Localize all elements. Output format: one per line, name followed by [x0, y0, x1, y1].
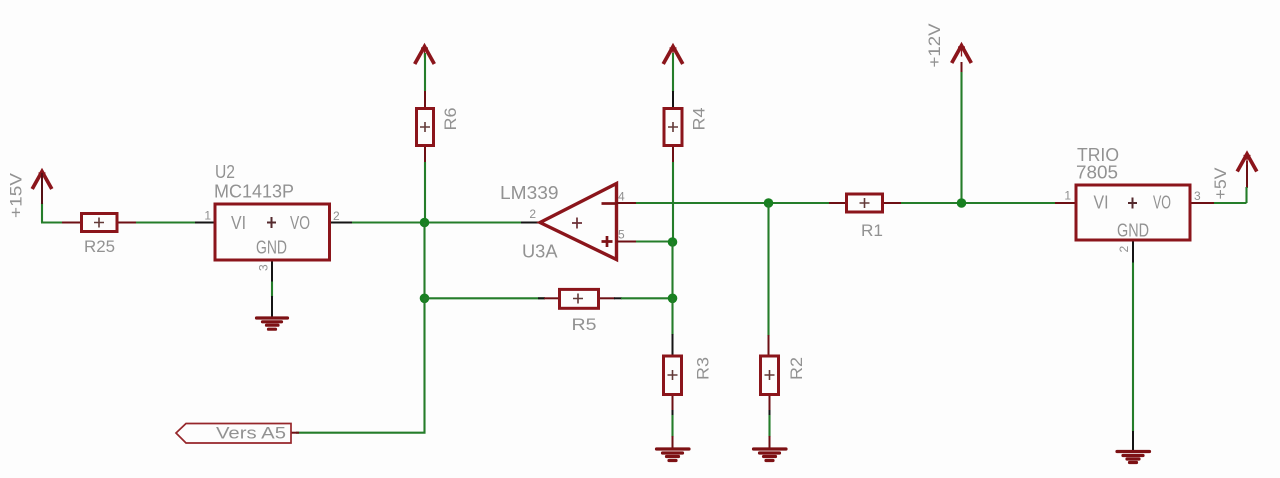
- svg-text:3: 3: [257, 264, 271, 271]
- wire R5 to node D: [621, 297, 673, 299]
- wire +12V stem: [961, 62, 963, 74]
- ground GND under R3: [657, 449, 690, 461]
- svg-text:R2: R2: [787, 357, 806, 380]
- svg-text:U3A: U3A: [522, 242, 558, 262]
- svg-text:5: 5: [618, 228, 625, 242]
- wire U2 to U3A output: [352, 221, 521, 223]
- power +5V arrow: [1237, 154, 1257, 172]
- U3A pin4 stub: [617, 202, 637, 204]
- svg-text:Vers A5: Vers A5: [216, 425, 286, 443]
- wire node B down to Vers A5: [296, 298, 425, 432]
- ground GND under R2: [754, 449, 787, 461]
- svg-text:1: 1: [204, 209, 211, 223]
- ground GND under 7805: [1117, 452, 1150, 463]
- svg-text:4: 4: [618, 190, 625, 204]
- wire arrow to R4: [672, 53, 674, 92]
- power +15V arrow: [32, 172, 52, 190]
- label stub Vers A5: [291, 432, 299, 434]
- svg-text:R6: R6: [441, 108, 460, 131]
- svg-text:1: 1: [1064, 189, 1071, 203]
- svg-text:R4: R4: [690, 108, 709, 131]
- svg-text:2: 2: [333, 209, 340, 223]
- junction node D: [668, 294, 678, 304]
- wire node E down to R2: [767, 203, 769, 336]
- junction node C: [668, 237, 678, 247]
- wire +5V stem: [1246, 161, 1248, 188]
- svg-text:+15V: +15V: [7, 172, 26, 218]
- wire 7805 output: [1214, 202, 1247, 204]
- resistor R1: [829, 194, 903, 212]
- svg-text:+12V: +12V: [925, 23, 944, 68]
- wire R1 to 7805: [901, 202, 1056, 204]
- wire +15V to R25: [41, 221, 63, 223]
- svg-text:LM339: LM339: [500, 183, 559, 203]
- power +12V arrow: [952, 46, 972, 64]
- power arrow above R4: [663, 47, 683, 65]
- junction node E: [764, 198, 774, 208]
- wire arrow to R6: [424, 53, 426, 91]
- resistor R2: [761, 335, 779, 415]
- op-amp U3A: [540, 184, 618, 260]
- wire 7805 pin2 to ground: [1132, 263, 1134, 432]
- IC U2 MC1413P: [195, 204, 352, 282]
- wire pin5 to node C: [636, 240, 673, 242]
- wire +15V stem: [41, 203, 43, 223]
- wire pin4 to R1: [636, 202, 832, 204]
- wire R6 to node A: [424, 162, 426, 223]
- junction node A: [420, 218, 430, 228]
- op-amp U3A output pin: [521, 222, 541, 224]
- wire node B to R5: [425, 297, 546, 299]
- svg-text:3: 3: [1194, 189, 1201, 203]
- svg-text:VO: VO: [1153, 193, 1171, 213]
- ground pin under 7805: [1132, 431, 1134, 451]
- junction node F: [957, 198, 967, 208]
- svg-text:R3: R3: [694, 357, 713, 380]
- U3A pin5 stub: [617, 241, 637, 243]
- svg-text:R25: R25: [84, 237, 115, 256]
- svg-text:U2: U2: [215, 162, 235, 182]
- junction node B: [420, 294, 430, 304]
- svg-text:2: 2: [1117, 246, 1131, 253]
- svg-text:VI: VI: [231, 213, 246, 233]
- resistor R25: [62, 214, 136, 232]
- power arrow above R6: [415, 47, 435, 65]
- wire node C to node D: [671, 242, 673, 299]
- resistor R6: [417, 91, 434, 162]
- svg-text:VI: VI: [1094, 193, 1109, 213]
- svg-text:2: 2: [529, 207, 536, 221]
- resistor R3: [664, 334, 682, 415]
- IC TRIO 7805: [1055, 185, 1214, 263]
- wire R2 to ground: [768, 415, 770, 437]
- svg-text:R5: R5: [572, 315, 597, 334]
- resistor R5: [538, 289, 622, 308]
- svg-text:+5V: +5V: [1211, 167, 1230, 200]
- net flag Vers A5: [176, 424, 291, 444]
- svg-text:R1: R1: [861, 221, 883, 240]
- svg-text:7805: 7805: [1076, 163, 1118, 183]
- wire node A down to node B: [423, 223, 425, 299]
- wire U2 pin3 to ground: [271, 282, 273, 298]
- ground GND under U2: [257, 318, 288, 329]
- svg-text:GND: GND: [1117, 221, 1149, 241]
- wire node D to R3: [671, 298, 673, 335]
- svg-text:VO: VO: [290, 213, 310, 233]
- wire R3 to ground: [671, 415, 673, 437]
- svg-text:GND: GND: [256, 238, 287, 258]
- ground pin under U2: [271, 296, 273, 317]
- resistor R4: [664, 91, 682, 162]
- wire R25 to U2 pin1: [136, 221, 196, 223]
- svg-text:MC1413P: MC1413P: [214, 181, 294, 201]
- wire R4 down to node C: [672, 162, 674, 242]
